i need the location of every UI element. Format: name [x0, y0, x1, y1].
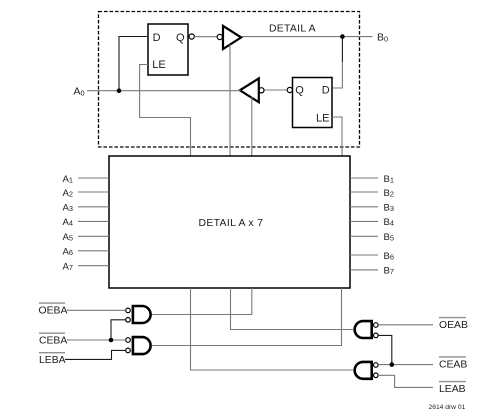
pin A7	[63, 262, 110, 273]
wire U1 Q to buffer U2 input	[194, 36, 216, 38]
svg-text:LE: LE	[316, 112, 329, 124]
wire U3 Q to buffer U4 input	[264, 89, 287, 91]
tri-state buffer U2 (A-to-B)	[223, 26, 241, 49]
node CEAB junction	[390, 362, 395, 367]
pin B1	[350, 174, 394, 185]
G4 input bubble bottom	[374, 373, 379, 378]
G1 input bubble bottom	[126, 318, 131, 323]
svg-text:A0: A0	[74, 87, 85, 98]
latch U3 Q output bubble	[287, 87, 292, 92]
svg-text:A5: A5	[63, 232, 74, 243]
wire G4 output to U1 LE	[191, 288, 354, 370]
svg-text:LEBA: LEBA	[39, 355, 66, 366]
G3 input bubble bottom	[374, 333, 379, 338]
gate G3 (OEAB enable AND, mirrored)	[355, 321, 372, 338]
svg-text:B2: B2	[384, 188, 395, 199]
pin B6	[350, 251, 394, 262]
G3 input bubble top	[374, 323, 379, 328]
big box DETAIL A x 7	[109, 156, 350, 288]
pin B7	[350, 266, 394, 277]
svg-text:DETAIL A: DETAIL A	[269, 24, 316, 35]
pin A4	[63, 217, 110, 228]
buffer U2 input bubble	[217, 34, 222, 39]
svg-text:B6: B6	[384, 251, 395, 262]
G1 input bubble top	[126, 308, 131, 313]
label CEAB	[439, 357, 467, 371]
gate G2 (LEBA AND)	[133, 337, 151, 354]
wire G3 bottom input from CEAB node	[378, 335, 392, 364]
G2 input bubble bottom	[126, 348, 131, 353]
G4 input bubble top	[374, 363, 379, 368]
wire CEAB	[378, 364, 433, 366]
wire U4 enable (from OEBA gate)	[251, 97, 253, 156]
pin B5	[350, 232, 394, 243]
wire G1 output to U4 enable	[152, 288, 252, 315]
svg-text:B4: B4	[384, 217, 395, 228]
wire G1 bottom input from CEBA node	[111, 320, 126, 340]
svg-text:A7: A7	[63, 262, 74, 273]
svg-text:A3: A3	[63, 203, 74, 214]
tri-state buffer U4 (B-to-A)	[240, 78, 259, 102]
svg-text:A6: A6	[63, 247, 74, 258]
svg-text:LEAB: LEAB	[439, 384, 466, 395]
pin B3	[350, 203, 394, 214]
wire OEBA	[67, 309, 126, 311]
svg-text:CEAB: CEAB	[439, 360, 467, 371]
G2 input bubble top	[126, 338, 131, 343]
gate G1 (OEBA enable AND)	[133, 306, 151, 323]
svg-text:B0: B0	[377, 33, 388, 44]
pin A1	[63, 174, 110, 185]
wire A0 up to latch U1 D input	[119, 37, 148, 91]
buffer U4 input bubble	[259, 88, 264, 93]
wire LEAB	[378, 375, 433, 387]
svg-text:2614 drw 01: 2614 drw 01	[429, 404, 466, 411]
pin A5	[63, 232, 110, 243]
svg-text:B3: B3	[384, 203, 395, 214]
svg-text:DETAIL A x 7: DETAIL A x 7	[199, 218, 264, 229]
svg-text:CEBA: CEBA	[39, 336, 67, 347]
latch U1 Q output bubble	[189, 34, 194, 39]
svg-text:A1: A1	[63, 174, 74, 185]
label CEBA	[39, 333, 67, 347]
svg-text:B1: B1	[384, 174, 395, 185]
pin A2	[63, 188, 110, 199]
pin B2	[350, 188, 394, 199]
wire U2 enable (from OEAB gate)	[229, 45, 231, 157]
latch U1 (A-to-B latch)	[148, 24, 188, 75]
node B0 junction	[340, 34, 345, 39]
wire OEAB	[378, 324, 433, 326]
wire LEBA	[65, 350, 126, 359]
svg-text:B5: B5	[384, 232, 395, 243]
svg-text:LE: LE	[152, 59, 165, 71]
node A0 junction	[117, 88, 122, 93]
wire U1 LE feed (from LEAB gate)	[140, 65, 191, 157]
pin A3	[63, 203, 110, 214]
latch U3 (B-to-A latch)	[293, 78, 333, 128]
svg-text:Q: Q	[295, 85, 304, 97]
wire A0	[87, 90, 241, 92]
wire U3 LE feed (from LEBA gate)	[332, 117, 342, 156]
svg-text:A2: A2	[63, 188, 74, 199]
svg-text:A4: A4	[63, 217, 74, 228]
wire B0	[242, 36, 373, 38]
dashed detail box	[99, 12, 360, 148]
svg-text:Q: Q	[176, 32, 185, 44]
wire G2 output to U3 LE	[152, 288, 342, 346]
svg-text:D: D	[322, 85, 330, 97]
svg-text:D: D	[153, 32, 161, 44]
pin A6	[63, 247, 110, 258]
svg-text:OEBA: OEBA	[39, 305, 68, 316]
gate G4 (LEAB AND, mirrored)	[355, 362, 372, 379]
label OEBA	[39, 303, 68, 316]
label OEAB	[439, 318, 468, 332]
wire G3 output to U2 enable	[231, 288, 354, 330]
svg-text:OEAB: OEAB	[439, 320, 468, 331]
wire CEBA	[67, 339, 126, 341]
svg-text:B7: B7	[384, 266, 395, 277]
label LEAB	[439, 382, 466, 396]
wire B0 down to latch U3 D input	[341, 37, 343, 62]
pin B4	[350, 217, 394, 228]
node CEBA junction	[109, 338, 114, 343]
label LEBA	[39, 353, 66, 367]
